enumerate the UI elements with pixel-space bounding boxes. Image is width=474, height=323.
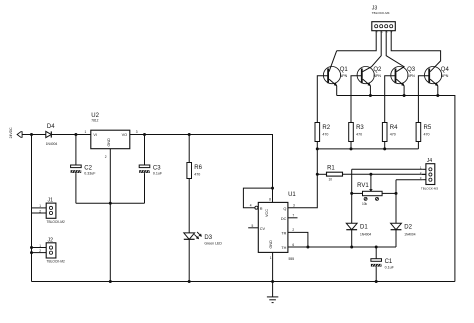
wire: Q output riser <box>288 142 317 208</box>
wire: Q2 collector to J3 pin2 <box>363 31 382 72</box>
node: gnd rail / D3 <box>188 280 191 283</box>
node: U2 gnd junction <box>109 202 112 205</box>
wire: rail to C3 top <box>144 135 146 166</box>
wire: D1 to TH bus <box>351 230 353 247</box>
svg-text:R2: R2 <box>322 125 330 131</box>
node: C1 top <box>375 246 378 249</box>
wire: bottom ground rail <box>32 281 455 283</box>
connector J2 (TBLOCK-M2) <box>39 237 65 263</box>
svg-text:0.1uF: 0.1uF <box>153 172 163 176</box>
wire: emitter drop at x=403.6 <box>403 86 405 96</box>
wire: TH bus to D1 D2 <box>288 246 396 248</box>
wire: R5 bottom stub <box>417 142 419 149</box>
svg-text:R: R <box>260 207 263 211</box>
node: U1 reset branch <box>271 187 274 190</box>
svg-text:TR: TR <box>281 232 286 236</box>
wire: emitter drop at x=369.9 <box>369 86 371 96</box>
wire: RV1 right terminal <box>382 192 396 194</box>
wire: base of transistor at x=395.0 <box>385 76 396 123</box>
node: emitter bus / Q2 <box>369 94 372 97</box>
wire: rail to C2 top <box>75 135 77 166</box>
svg-text:Q: Q <box>283 207 286 211</box>
svg-text:TBLOCK-M3: TBLOCK-M3 <box>421 187 439 191</box>
wire: C2 bottom to gnd bus <box>75 173 77 203</box>
wire: J2 pin2 <box>32 252 47 254</box>
svg-text:6: 6 <box>292 243 294 247</box>
resistor R4 <box>382 123 398 142</box>
svg-text:J1: J1 <box>48 198 54 204</box>
wire: J1 pin2 <box>32 212 47 214</box>
node: RV1 left junction <box>350 192 353 195</box>
svg-text:VI: VI <box>93 133 97 137</box>
diode D2 <box>391 223 416 236</box>
svg-text:3: 3 <box>293 204 295 208</box>
svg-text:D3: D3 <box>204 235 212 241</box>
svg-text:3: 3 <box>136 130 138 134</box>
wire: R6 to D3 <box>188 179 190 233</box>
input port arrow <box>17 132 22 138</box>
wire: base of transistor at x=428.7 <box>418 76 429 123</box>
svg-text:NPN: NPN <box>340 74 348 78</box>
svg-text:24VDC: 24VDC <box>9 127 13 138</box>
transistor Q4 (NPN) <box>425 67 450 87</box>
svg-text:RV1: RV1 <box>357 183 369 189</box>
node: TR/TH junction <box>306 246 309 249</box>
node: bus / R3 <box>350 147 353 150</box>
wire: J4 pin3 line <box>396 179 422 181</box>
regulator U2 (7812) <box>91 130 130 149</box>
wire: local ground bus C2-C3 <box>76 202 145 204</box>
node: emitter bus / Q3 <box>403 94 406 97</box>
wire: gnd bus down to bottom rail <box>109 203 111 281</box>
svg-text:GND: GND <box>107 138 111 147</box>
svg-text:1N4004: 1N4004 <box>46 142 58 146</box>
svg-text:470: 470 <box>322 132 328 136</box>
svg-text:C3: C3 <box>153 165 161 171</box>
svg-text:Q4: Q4 <box>441 67 450 73</box>
node: gnd rail / U1 gnd <box>271 280 274 283</box>
svg-text:7812: 7812 <box>91 119 98 123</box>
resistor R5 <box>416 123 432 142</box>
diode D4 <box>46 131 52 137</box>
svg-text:8: 8 <box>269 198 271 202</box>
svg-text:470: 470 <box>390 132 396 136</box>
node: J1 branch junction <box>30 133 33 136</box>
wire: R1 to J4 pin2 <box>343 173 426 175</box>
transistor Q1 (NPN) <box>323 67 348 87</box>
wire: 12V rail from U2 VO to U1 VCC <box>130 135 273 203</box>
wire: emitter bus to ground rail <box>337 96 455 282</box>
wire: resistor bottom bus <box>317 148 418 150</box>
svg-text:2: 2 <box>105 155 107 159</box>
U1 reset bubble <box>255 206 258 209</box>
svg-text:NPN: NPN <box>373 74 381 78</box>
svg-text:TBLOCK-M4: TBLOCK-M4 <box>372 11 390 15</box>
svg-text:1N4004: 1N4004 <box>404 232 415 236</box>
svg-text:1: 1 <box>39 244 41 248</box>
wire: RV1 left terminal <box>352 192 363 194</box>
resistor R6 <box>187 163 203 179</box>
LED D3 (Green LED) <box>184 232 202 239</box>
svg-text:470: 470 <box>424 132 430 136</box>
svg-text:R3: R3 <box>356 125 364 131</box>
wire: U2 GND down <box>109 149 111 204</box>
node: RV1 wiper tap <box>369 173 372 176</box>
wire: riser to R1 <box>317 173 326 175</box>
svg-text:D1: D1 <box>360 224 368 230</box>
svg-text:TBLOCK-M2: TBLOCK-M2 <box>47 260 65 264</box>
wire: R4 bottom stub <box>384 142 386 149</box>
svg-text:1: 1 <box>270 256 272 260</box>
svg-text:1: 1 <box>85 130 87 134</box>
resistor R3 <box>349 123 365 142</box>
wire: J2 pin1 <box>32 247 47 249</box>
node: gnd rail / U2 branch <box>109 280 112 283</box>
diode D1 <box>346 223 371 236</box>
node: RV1 right junction <box>395 192 398 195</box>
svg-text:VO: VO <box>122 133 128 137</box>
svg-text:J2: J2 <box>48 237 54 243</box>
node: R6 tap <box>188 133 191 136</box>
node: gnd rail / C1 <box>375 280 378 283</box>
wire: Q1 collector to J3 pin1 <box>337 31 377 51</box>
svg-text:5: 5 <box>252 224 254 228</box>
connector J4 (TBLOCK-M3) <box>422 164 435 185</box>
svg-text:D4: D4 <box>47 124 55 130</box>
wire: down to D1 <box>351 169 353 223</box>
svg-text:7: 7 <box>292 214 294 218</box>
wire: Q1 collector diagonal <box>329 51 337 72</box>
wire: port to D4 anode <box>22 134 45 136</box>
svg-text:2: 2 <box>39 249 41 253</box>
wire: base of transistor at x=327.6 <box>317 76 328 123</box>
svg-text:R6: R6 <box>194 165 202 171</box>
node: C2 tap <box>74 133 77 136</box>
node: C3 tap <box>143 133 146 136</box>
svg-text:1N4004: 1N4004 <box>360 232 371 236</box>
wire: DC stub (pin 7) <box>288 217 298 219</box>
svg-text:C1: C1 <box>385 259 393 265</box>
wire: U1 GND to rail <box>272 252 274 281</box>
svg-text:NPN: NPN <box>441 74 449 78</box>
node: J2 pin1 junction <box>30 246 33 249</box>
svg-text:R4: R4 <box>390 125 398 131</box>
wire: bus to C1 <box>375 247 377 259</box>
svg-text:U1: U1 <box>288 192 296 198</box>
wire: Q4 collector to J3 pin4 <box>391 31 440 72</box>
svg-text:Q2: Q2 <box>373 67 382 73</box>
svg-text:Q3: Q3 <box>407 67 416 73</box>
svg-text:Q1: Q1 <box>340 67 349 73</box>
timer U1 (555) <box>258 202 288 252</box>
resistor R2 <box>315 123 331 142</box>
capacitor C2 <box>71 165 97 176</box>
svg-text:0.1uF: 0.1uF <box>385 265 395 269</box>
svg-text:470: 470 <box>194 172 200 176</box>
wire: TR to TH <box>288 232 308 247</box>
wire: D4 cathode to U2 VI <box>51 134 91 136</box>
svg-text:R5: R5 <box>424 125 432 131</box>
svg-text:D2: D2 <box>404 224 412 230</box>
potentiometer RV1 <box>363 189 383 200</box>
svg-text:C2: C2 <box>84 165 92 171</box>
svg-text:GND: GND <box>269 240 273 249</box>
svg-text:2: 2 <box>39 209 41 213</box>
wire: R3 bottom stub <box>350 142 352 149</box>
svg-text:4: 4 <box>250 204 252 208</box>
wire: Q3 collector to J3 pin3 <box>386 31 404 72</box>
wire: emitter drop at x=336.2 <box>336 86 338 96</box>
wire: down to D2 <box>395 180 397 224</box>
svg-text:R1: R1 <box>327 166 335 172</box>
svg-text:470: 470 <box>356 132 362 136</box>
svg-text:0.33uF: 0.33uF <box>84 172 96 176</box>
svg-text:J4: J4 <box>427 158 433 164</box>
capacitor C1 <box>371 259 395 270</box>
svg-text:555: 555 <box>289 257 295 261</box>
node: riser / R1 <box>316 173 319 176</box>
node: emitter bus / Q4 <box>436 94 439 97</box>
svg-text:CV: CV <box>260 227 266 231</box>
node: D1 bottom <box>350 246 353 249</box>
wire: C1 to rail <box>375 267 377 282</box>
node: J2 pin2 junction <box>30 251 33 254</box>
svg-text:Green LED: Green LED <box>204 242 222 246</box>
wire: left vertical to J1/J2 and ground rail <box>31 135 33 282</box>
connector J1 (TBLOCK-M2) <box>39 198 65 224</box>
svg-text:TBLOCK-M2: TBLOCK-M2 <box>47 220 65 224</box>
wire: base of transistor at x=361.3 <box>351 76 362 123</box>
wire: emitter drop at x=437.3 <box>437 86 439 96</box>
wire: J1 pin1 <box>32 207 47 209</box>
svg-text:10: 10 <box>329 177 333 181</box>
connector J3 (TBLOCK-M4) <box>372 22 396 31</box>
wire: C3 bottom to gnd bus <box>144 173 146 203</box>
transistor Q3 (NPN) <box>391 67 416 87</box>
svg-text:1: 1 <box>39 204 41 208</box>
wire: D3 to bottom rail <box>188 239 190 281</box>
capacitor C3 <box>139 165 163 176</box>
wire: J4 pin1 line <box>352 168 422 170</box>
svg-text:NPN: NPN <box>407 74 415 78</box>
wire: CV stub (pin 5) <box>248 227 258 229</box>
wire: wiper to R1 line <box>370 174 372 191</box>
resistor R1 <box>327 172 343 176</box>
node: bus / R4 <box>383 147 386 150</box>
ground <box>267 282 278 303</box>
svg-text:TH: TH <box>281 246 286 250</box>
node: riser / R bus <box>316 147 319 150</box>
wire: rail to R6 <box>188 135 190 163</box>
svg-text:DC: DC <box>281 217 287 221</box>
wire: reset loop to VCC <box>243 188 272 208</box>
wire: D2 to TH bus <box>395 230 397 247</box>
svg-text:VCC: VCC <box>265 209 269 217</box>
svg-text:2: 2 <box>292 228 294 232</box>
transistor Q2 (NPN) <box>357 67 382 87</box>
svg-text:10k: 10k <box>362 202 368 206</box>
